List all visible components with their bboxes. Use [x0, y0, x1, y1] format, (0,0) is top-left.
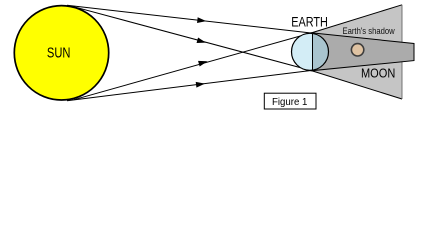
- earth circle left half: [292, 33, 329, 70]
- moon circle: [351, 44, 363, 56]
- wire ray L4 sun-bottom to earth-bottom: [67, 71, 311, 101]
- arrowhead A3: [198, 58, 208, 66]
- umbra shadow polygon: [311, 33, 414, 71]
- figure box: [264, 93, 316, 109]
- penumbra bottom edge: [311, 71, 402, 100]
- penumbra shadow polygon: [311, 5, 402, 99]
- sun circle: [14, 6, 108, 100]
- svg-text:MOON: MOON: [361, 66, 395, 80]
- wire ray L3 sun-bottom to earth-top: [74, 33, 311, 100]
- earth terminator divider: [312, 34, 314, 71]
- arrowhead A4: [196, 81, 206, 88]
- penumbra right edge: [401, 5, 403, 99]
- svg-text:EARTH: EARTH: [291, 14, 328, 29]
- arrowhead A2: [197, 37, 207, 45]
- svg-text:Figure 1: Figure 1: [272, 97, 308, 108]
- penumbra top edge: [311, 5, 402, 33]
- arrowhead A1: [197, 17, 207, 24]
- svg-text:Earth's shadow: Earth's shadow: [343, 26, 396, 36]
- svg-text:SUN: SUN: [47, 46, 71, 62]
- earth outline: [292, 33, 329, 70]
- wire ray L1 sun-top to earth-top: [67, 5, 311, 33]
- wire ray L2 sun-top to earth-bottom: [74, 7, 311, 71]
- earth right half: [313, 33, 329, 70]
